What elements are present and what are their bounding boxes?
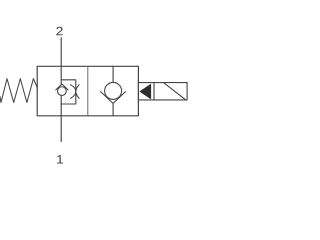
check valve V2 seat [101, 92, 126, 104]
solenoid divider [153, 83, 155, 100]
solenoid armature triangle [140, 84, 151, 98]
closed path X symbol [71, 85, 80, 99]
wire below ball V1 [60, 95, 62, 104]
wire port 1 [60, 104, 62, 142]
check valve V1 ball [58, 87, 67, 96]
port label 1 [57, 155, 63, 163]
wire above check valve V2 [112, 66, 114, 82]
spring [0, 79, 38, 103]
port label 2 [56, 27, 62, 36]
bypass branch wire [61, 80, 76, 104]
valve position divider [87, 66, 89, 116]
valve body envelope [37, 66, 138, 116]
wire below seat V2 [112, 103, 114, 115]
wire port 2 [60, 38, 62, 84]
solenoid body [138, 83, 187, 100]
check valve V2 ball (right position) [105, 82, 122, 99]
check valve V1 seat (left position) [56, 84, 68, 90]
solenoid coil diagonal [164, 83, 186, 100]
